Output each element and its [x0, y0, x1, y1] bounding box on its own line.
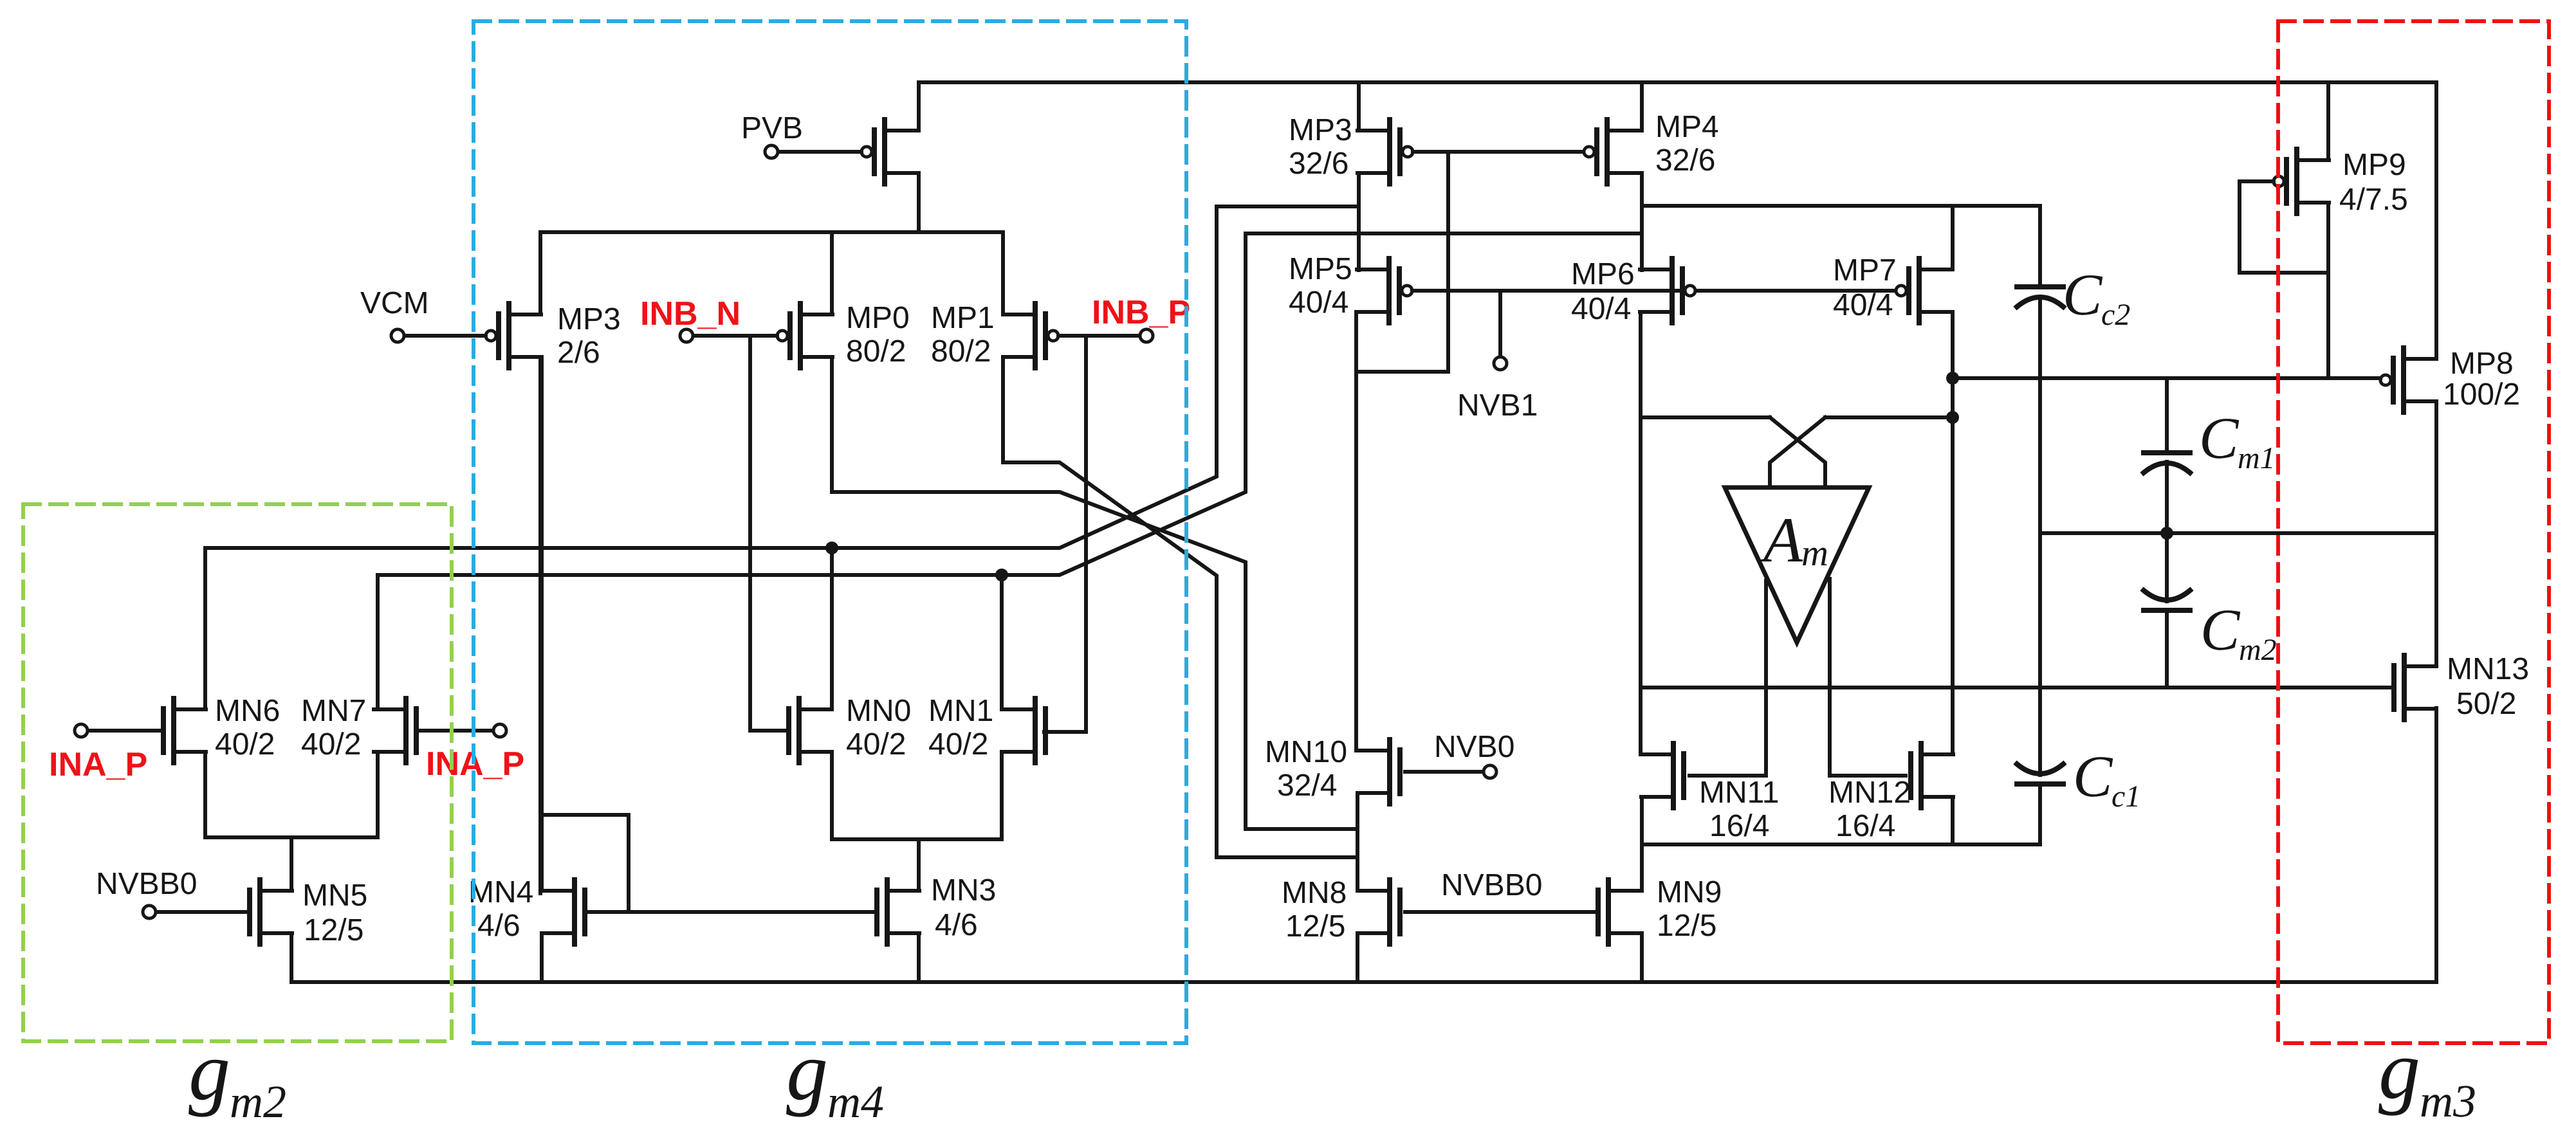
svg-text:12/5: 12/5	[1285, 909, 1345, 943]
svg-text:40/4: 40/4	[1289, 286, 1348, 320]
svg-text:MN6: MN6	[215, 694, 280, 728]
svg-text:40/4: 40/4	[1571, 292, 1631, 326]
svg-text:MN0: MN0	[846, 694, 911, 728]
svg-text:MP8: MP8	[2450, 347, 2514, 381]
svg-text:c1: c1	[2111, 779, 2140, 814]
svg-text:40/2: 40/2	[928, 727, 988, 761]
svg-text:g: g	[189, 1025, 230, 1118]
svg-text:NVB0: NVB0	[1434, 730, 1514, 764]
svg-text:MN12: MN12	[1828, 776, 1911, 810]
svg-text:MP7: MP7	[1833, 253, 1897, 287]
svg-text:C: C	[2199, 405, 2240, 471]
svg-text:12/5: 12/5	[304, 913, 363, 947]
svg-text:MP1: MP1	[931, 301, 995, 335]
svg-text:80/2: 80/2	[846, 334, 906, 369]
svg-text:INB_P: INB_P	[1092, 294, 1190, 331]
svg-text:g: g	[786, 1025, 828, 1118]
svg-text:32/6: 32/6	[1289, 147, 1348, 181]
svg-text:NVBB0: NVBB0	[96, 867, 197, 901]
svg-text:4/6: 4/6	[935, 908, 978, 942]
svg-text:32/4: 32/4	[1277, 769, 1337, 803]
svg-text:4/7.5: 4/7.5	[2339, 183, 2408, 217]
svg-text:MP0: MP0	[846, 301, 910, 335]
svg-text:m4: m4	[827, 1076, 884, 1127]
svg-text:m2: m2	[230, 1076, 286, 1127]
svg-text:NVB1: NVB1	[1457, 388, 1538, 423]
svg-text:40/4: 40/4	[1833, 288, 1893, 322]
svg-text:c2: c2	[2101, 298, 2130, 332]
svg-text:MP3: MP3	[1289, 113, 1352, 147]
svg-text:m: m	[1801, 532, 1828, 574]
svg-text:g: g	[2378, 1024, 2420, 1116]
svg-text:40/2: 40/2	[846, 727, 906, 761]
svg-text:12/5: 12/5	[1657, 909, 1716, 943]
svg-text:C: C	[2073, 743, 2113, 809]
svg-text:PVB: PVB	[741, 111, 803, 145]
svg-text:4/6: 4/6	[477, 909, 520, 943]
svg-text:VCM: VCM	[360, 286, 429, 320]
svg-text:MP4: MP4	[1655, 110, 1719, 144]
svg-text:C: C	[2200, 597, 2241, 662]
svg-text:m1: m1	[2238, 441, 2276, 475]
svg-text:MN7: MN7	[301, 694, 366, 728]
svg-text:MN1: MN1	[928, 694, 993, 728]
svg-text:16/4: 16/4	[1835, 809, 1895, 843]
svg-text:NVBB0: NVBB0	[1441, 868, 1542, 902]
svg-text:MN4: MN4	[468, 875, 533, 909]
svg-text:100/2: 100/2	[2443, 378, 2520, 412]
svg-text:MN10: MN10	[1265, 735, 1347, 769]
svg-text:m3: m3	[2420, 1075, 2476, 1127]
svg-text:C: C	[2063, 262, 2103, 327]
svg-text:80/2: 80/2	[931, 334, 991, 369]
svg-text:MP5: MP5	[1289, 252, 1352, 286]
svg-text:MN5: MN5	[302, 879, 367, 913]
svg-text:16/4: 16/4	[1709, 809, 1769, 843]
svg-text:MP6: MP6	[1571, 257, 1635, 291]
svg-text:MN3: MN3	[931, 873, 996, 907]
svg-text:MN8: MN8	[1282, 876, 1347, 910]
svg-text:INB_N: INB_N	[640, 295, 741, 333]
svg-text:MN13: MN13	[2447, 652, 2529, 686]
svg-text:MN11: MN11	[1699, 776, 1779, 810]
svg-text:40/2: 40/2	[215, 727, 275, 761]
svg-text:MN9: MN9	[1657, 875, 1722, 909]
svg-text:m2: m2	[2239, 633, 2277, 667]
svg-text:MP9: MP9	[2342, 148, 2406, 182]
svg-text:MP3: MP3	[557, 302, 621, 336]
svg-text:2/6: 2/6	[557, 336, 600, 370]
svg-text:A: A	[1760, 504, 1803, 576]
svg-text:INA_P: INA_P	[49, 746, 147, 783]
svg-text:40/2: 40/2	[301, 727, 361, 761]
svg-text:32/6: 32/6	[1655, 143, 1715, 178]
svg-text:50/2: 50/2	[2456, 687, 2516, 721]
